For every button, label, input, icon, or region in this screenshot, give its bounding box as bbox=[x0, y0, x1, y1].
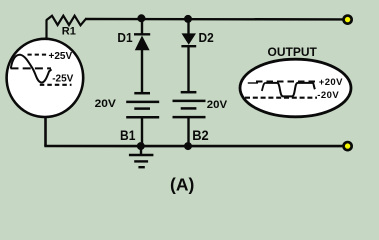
svg-text:+20V: +20V bbox=[319, 77, 343, 88]
wire D1 to B1 bbox=[141, 50, 143, 93]
output oval bbox=[240, 59, 351, 117]
svg-text:D1: D1 bbox=[117, 30, 132, 45]
ac source G1 bbox=[7, 39, 84, 117]
sine wave inside source bbox=[11, 55, 52, 83]
wire D2 to B2 bbox=[187, 46, 189, 92]
svg-text:R1: R1 bbox=[62, 26, 76, 38]
battery B2 bbox=[173, 92, 206, 117]
diode D2 lead bbox=[187, 19, 189, 34]
clipped output waveform first dip tail bbox=[262, 83, 266, 91]
diode D2 triangle bbox=[182, 33, 197, 44]
junction dot bottom B2 bbox=[184, 142, 192, 150]
svg-text:(A): (A) bbox=[170, 174, 194, 194]
ground stem bbox=[140, 146, 142, 155]
dashed -20V level line bbox=[245, 97, 317, 99]
diode D2 cathode bar bbox=[181, 45, 196, 47]
svg-text:OUTPUT: OUTPUT bbox=[268, 45, 318, 59]
svg-text:B2: B2 bbox=[192, 127, 209, 143]
terminal bottom right bbox=[342, 141, 353, 152]
resistor R1 bbox=[47, 16, 86, 26]
terminal top right bbox=[342, 14, 353, 25]
dashed -25V level line bbox=[40, 84, 72, 86]
dashed +25V level line bbox=[28, 54, 49, 56]
svg-text:20V: 20V bbox=[207, 99, 228, 111]
diode D1 cathode bar bbox=[134, 33, 150, 35]
ground bar 2 bbox=[134, 160, 148, 162]
svg-text:B1: B1 bbox=[120, 127, 136, 143]
battery B1 bbox=[126, 93, 159, 117]
wire source bottom lead bbox=[44, 118, 47, 147]
junction dot bottom B1 bbox=[137, 142, 145, 150]
wire source top lead bbox=[45, 20, 47, 39]
wire B2 to bottom bus bbox=[187, 117, 189, 146]
wire top bus bbox=[85, 18, 344, 21]
clipped output waveform bbox=[266, 83, 315, 97]
junction dot top D1 bbox=[137, 14, 145, 22]
diode D1 triangle bbox=[135, 36, 150, 51]
svg-text:D2: D2 bbox=[199, 30, 214, 45]
diode D1 lead bbox=[141, 19, 143, 35]
clipped output waveform start segment bbox=[248, 82, 258, 84]
junction dot top D2 bbox=[184, 15, 192, 23]
wire B1 to bottom bus bbox=[141, 117, 143, 146]
ground bar 1 bbox=[129, 154, 154, 157]
ground bar 3 bbox=[138, 166, 144, 168]
dashed +20V level line bbox=[256, 81, 317, 83]
dashed axis line of source bbox=[11, 67, 52, 69]
svg-text:-20V: -20V bbox=[317, 90, 339, 101]
svg-text:+25V: +25V bbox=[49, 51, 73, 62]
svg-text:20V: 20V bbox=[95, 98, 117, 110]
svg-text:-25V: -25V bbox=[52, 74, 73, 85]
wire bottom bus bbox=[44, 145, 344, 148]
